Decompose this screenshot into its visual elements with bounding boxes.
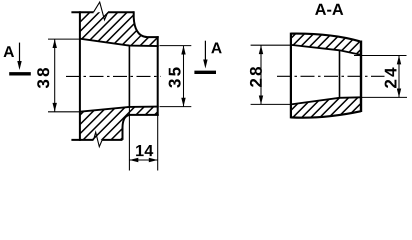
cutting plane left arrow — [19, 43, 21, 63]
cutting plane right arrow — [204, 41, 206, 61]
cutting plane letter A left — [4, 46, 14, 57]
dim 28 value — [250, 67, 262, 87]
hatch of section bands, view A-A — [136, 0, 412, 175]
break zigzag bottom — [94, 132, 103, 147]
dim 38 dimension line — [54, 39, 56, 112]
section right face — [360, 41, 362, 113]
cutting plane left thick stroke — [9, 72, 31, 75]
dim 35 dimension line — [183, 46, 185, 107]
hatch of sectioned walls, left view — [0, 0, 297, 175]
dim 38 extension lines — [48, 39, 80, 112]
dim 35 extension lines — [160, 46, 192, 107]
dim 38 value — [37, 68, 49, 88]
centerline of section — [277, 75, 385, 77]
dim 14 extension lines — [129, 107, 157, 171]
section left face — [290, 33, 292, 119]
section outer top edge — [291, 34, 360, 42]
dim 24 extension lines — [354, 56, 407, 98]
neck right face — [157, 36, 159, 116]
dim 28 extension lines — [251, 45, 294, 104]
dim 35 value — [169, 67, 181, 87]
outer top line of boss — [71, 11, 133, 13]
dim 14 value — [136, 145, 153, 156]
dim 14 dimension line — [129, 159, 157, 161]
cutting plane letter A right — [211, 43, 221, 54]
bore top contour — [80, 39, 159, 46]
bore bottom contour — [80, 107, 159, 112]
boss corner and fillet to neck — [134, 11, 159, 37]
section outer bottom edge — [291, 111, 361, 118]
cone end edge inside bore — [128, 46, 130, 107]
section bore step edge — [339, 50, 341, 98]
neck bottom line and lower fillet — [123, 115, 159, 140]
cutting plane right thick stroke — [194, 71, 216, 74]
centerline left view — [66, 75, 161, 77]
section bore top contour — [291, 45, 361, 55]
left face of part — [79, 11, 81, 141]
dim 24 dimension line — [398, 56, 400, 98]
section title A-A — [315, 4, 343, 15]
outer bottom line of boss — [71, 139, 122, 141]
section bore bottom contour — [291, 97, 361, 104]
break zigzag top — [94, 2, 108, 20]
dim 24 value — [385, 68, 397, 88]
dim 28 dimension line — [260, 45, 262, 104]
